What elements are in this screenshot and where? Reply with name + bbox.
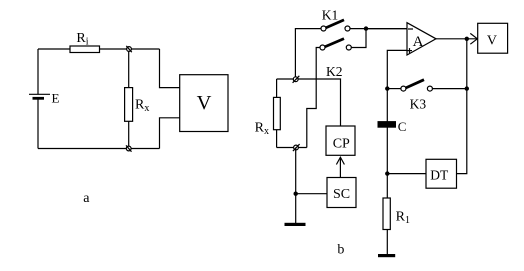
switch K3 bbox=[401, 80, 433, 91]
wire top rail a bbox=[38, 48, 160, 50]
node bottom a (slashed terminal) bbox=[126, 145, 132, 151]
svg-text:K1: K1 bbox=[322, 8, 339, 23]
svg-text:C: C bbox=[398, 119, 407, 134]
wire right rail bbox=[457, 39, 467, 174]
resistor R1 bbox=[383, 198, 390, 230]
junction dot (switch join) bbox=[364, 26, 368, 30]
wire lower terminal link bbox=[277, 147, 307, 149]
svg-text:a: a bbox=[83, 191, 90, 206]
voltmeter V box (a) bbox=[180, 75, 228, 132]
block DT bbox=[426, 159, 457, 188]
wire upper measuring rail (to CP) bbox=[277, 79, 341, 126]
wire Rx (b) column bbox=[276, 79, 278, 148]
arrow into voltmeter b bbox=[470, 33, 477, 44]
capacitor C bbox=[378, 121, 397, 128]
wire K2 left lead (jog down to lower terminal) bbox=[307, 48, 320, 148]
wire down to ground 1 bbox=[295, 148, 297, 224]
wire K3 left lead bbox=[387, 88, 401, 90]
switch K2 bbox=[320, 39, 351, 50]
wire K2 right lead up to junction bbox=[352, 29, 367, 48]
junction dot (right rail / K3) bbox=[465, 86, 469, 90]
svg-text:b: b bbox=[337, 243, 344, 258]
wire C / R1 column bbox=[386, 89, 388, 254]
battery E plate long bbox=[29, 93, 50, 95]
resistor Rx (b) bbox=[274, 97, 281, 129]
node top b (slashed terminal) bbox=[293, 76, 300, 83]
wire K1 left lead bbox=[295, 29, 321, 77]
junction dot (C top / K3 left) bbox=[385, 86, 389, 90]
voltmeter V box (b) bbox=[478, 23, 508, 53]
wire op-amp non-inverting input bbox=[387, 50, 407, 88]
wire left rail a (upper, to battery) bbox=[37, 49, 39, 94]
op-amp U1 bbox=[407, 23, 436, 55]
junction dot (SC tap) bbox=[294, 192, 298, 196]
svg-text:K2: K2 bbox=[326, 64, 343, 79]
battery E plate short bbox=[33, 97, 45, 100]
wire to voltmeter top a bbox=[160, 49, 180, 88]
svg-text:E: E bbox=[52, 90, 60, 105]
block CP bbox=[326, 126, 355, 155]
junction dot (output node) bbox=[465, 37, 469, 41]
wire SC to CP with arrow bbox=[336, 157, 344, 177]
wire bottom rail a bbox=[38, 148, 160, 150]
svg-text:V: V bbox=[197, 92, 212, 114]
resistor Rx (a) bbox=[125, 88, 133, 122]
wire K1 right lead to junction bbox=[350, 28, 407, 30]
junction dot (DT tap) bbox=[385, 171, 389, 175]
wire op-amp inverting input bbox=[366, 28, 407, 30]
node top a (slashed terminal) bbox=[126, 46, 132, 52]
ground 1 bbox=[285, 223, 306, 226]
resistor Ri bbox=[70, 46, 100, 53]
wire to voltmeter bottom a bbox=[160, 118, 180, 149]
wire Rx column a bbox=[128, 49, 130, 149]
ground 2 bbox=[378, 254, 395, 257]
wire to DT left bbox=[387, 173, 426, 175]
wire left rail a (lower, from battery) bbox=[37, 99, 39, 149]
wire op-amp output bbox=[436, 38, 478, 40]
svg-text:A: A bbox=[413, 34, 424, 50]
svg-text:DT: DT bbox=[430, 168, 449, 183]
svg-text:CP: CP bbox=[333, 136, 350, 151]
node bottom b (slashed terminal) bbox=[293, 144, 300, 151]
wire K3 right lead bbox=[432, 88, 466, 90]
svg-text:V: V bbox=[487, 34, 497, 49]
switch K1 bbox=[321, 20, 350, 31]
svg-text:K3: K3 bbox=[410, 97, 427, 112]
svg-text:SC: SC bbox=[333, 187, 350, 202]
block SC bbox=[327, 178, 356, 208]
wire to SC bbox=[296, 193, 327, 195]
